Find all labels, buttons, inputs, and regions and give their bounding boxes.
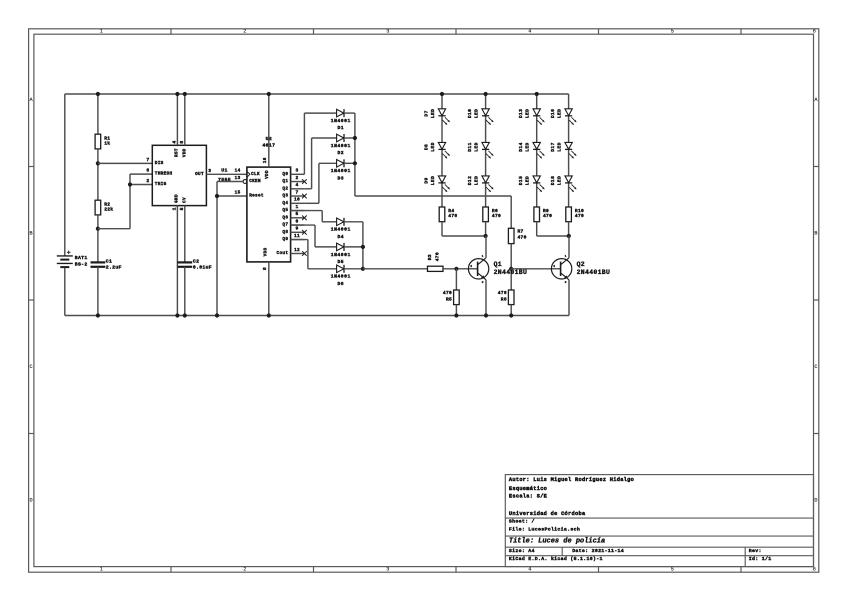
svg-text:3: 3 <box>565 280 567 284</box>
svg-text:Q6: Q6 <box>282 215 288 220</box>
svg-text:Title: Luces de policía: Title: Luces de policía <box>509 537 605 545</box>
svg-text:D5: D5 <box>338 259 345 265</box>
svg-text:2: 2 <box>295 175 298 181</box>
svg-text:D2: D2 <box>338 150 345 156</box>
svg-text:2: 2 <box>146 178 149 184</box>
svg-text:CLK: CLK <box>251 172 260 177</box>
svg-text:GND: GND <box>174 194 179 203</box>
svg-text:3: 3 <box>386 567 389 573</box>
svg-text:TRIG: TRIG <box>155 182 167 187</box>
svg-text:8: 8 <box>179 140 185 143</box>
svg-text:C2: C2 <box>193 259 199 265</box>
svg-text:B: B <box>29 230 32 236</box>
svg-text:VDD: VDD <box>265 170 270 179</box>
svg-text:470: 470 <box>518 235 527 241</box>
svg-text:LED: LED <box>430 176 436 185</box>
svg-text:6: 6 <box>146 168 149 174</box>
svg-text:5: 5 <box>179 207 185 210</box>
svg-text:470: 470 <box>543 213 552 219</box>
svg-text:1: 1 <box>100 567 103 573</box>
svg-text:1: 1 <box>295 204 298 210</box>
svg-text:LED: LED <box>525 142 531 151</box>
svg-text:LED: LED <box>430 142 436 151</box>
svg-text:3: 3 <box>386 29 389 35</box>
svg-text:4: 4 <box>172 140 178 143</box>
svg-text:R3: R3 <box>427 254 433 260</box>
svg-text:LED: LED <box>430 109 436 118</box>
svg-text:D12: D12 <box>467 176 473 185</box>
svg-text:2N4401BU: 2N4401BU <box>494 269 528 276</box>
svg-text:RST: RST <box>174 148 179 157</box>
svg-text:LED: LED <box>474 142 480 151</box>
svg-text:15: 15 <box>235 190 241 195</box>
svg-text:CKEN: CKEN <box>249 179 261 184</box>
svg-text:8: 8 <box>262 267 268 270</box>
svg-text:D13: D13 <box>518 109 524 118</box>
svg-text:A: A <box>814 97 818 103</box>
svg-text:13: 13 <box>235 176 241 181</box>
svg-text:LED: LED <box>474 109 480 118</box>
svg-text:A: A <box>29 97 33 103</box>
svg-text:C: C <box>814 364 817 370</box>
svg-text:Id: 1/1: Id: 1/1 <box>749 556 772 562</box>
svg-text:R1: R1 <box>104 135 110 141</box>
svg-text:2.2uF: 2.2uF <box>106 264 122 270</box>
svg-text:U1: U1 <box>221 168 228 174</box>
svg-text:Q1: Q1 <box>494 261 502 268</box>
svg-text:D17: D17 <box>550 142 556 151</box>
svg-text:D7: D7 <box>423 110 429 116</box>
svg-text:Cout: Cout <box>277 251 289 256</box>
svg-text:Q8: Q8 <box>282 230 288 235</box>
svg-text:BS-2: BS-2 <box>75 262 88 268</box>
svg-text:3: 3 <box>208 168 211 174</box>
svg-text:D14: D14 <box>518 142 524 151</box>
svg-text:Reset: Reset <box>249 194 264 199</box>
svg-text:LED: LED <box>525 176 531 185</box>
svg-text:7: 7 <box>146 157 149 163</box>
svg-text:1N4001: 1N4001 <box>331 168 351 174</box>
svg-text:R7: R7 <box>518 229 524 235</box>
svg-text:6: 6 <box>295 218 298 224</box>
svg-text:D8: D8 <box>423 144 429 150</box>
svg-text:LED: LED <box>525 109 531 118</box>
svg-text:1N4001: 1N4001 <box>331 143 351 149</box>
svg-text:Q7: Q7 <box>282 223 288 228</box>
svg-text:6: 6 <box>813 29 816 35</box>
svg-text:470: 470 <box>434 252 440 261</box>
svg-text:Size: A4: Size: A4 <box>509 548 535 554</box>
svg-text:2: 2 <box>243 567 246 573</box>
svg-text:22k: 22k <box>104 207 113 213</box>
svg-text:D9: D9 <box>423 177 429 183</box>
svg-text:7: 7 <box>295 189 298 195</box>
svg-text:470: 470 <box>443 290 452 296</box>
svg-text:R4: R4 <box>448 208 454 214</box>
svg-text:1k: 1k <box>104 141 110 147</box>
svg-text:File: LucesPolicia.sch: File: LucesPolicia.sch <box>509 527 580 533</box>
svg-text:Sheet: /: Sheet: / <box>509 518 535 524</box>
svg-text:5: 5 <box>671 567 674 573</box>
svg-text:12: 12 <box>294 248 300 253</box>
svg-text:2N4401BU: 2N4401BU <box>577 269 611 276</box>
svg-text:Date: 2021-11-14: Date: 2021-11-14 <box>572 548 624 554</box>
svg-text:14: 14 <box>235 169 241 174</box>
svg-text:D3: D3 <box>338 175 345 181</box>
svg-text:11: 11 <box>294 233 300 239</box>
svg-text:5: 5 <box>671 29 674 35</box>
svg-text:R8: R8 <box>501 297 507 303</box>
svg-text:Q9: Q9 <box>282 237 288 242</box>
svg-text:1: 1 <box>482 254 484 258</box>
svg-text:1: 1 <box>172 207 178 210</box>
svg-text:10: 10 <box>294 197 300 203</box>
svg-text:D16: D16 <box>550 109 556 118</box>
svg-text:VSS: VSS <box>264 248 269 257</box>
svg-text:470: 470 <box>575 213 584 219</box>
svg-text:R5: R5 <box>446 297 452 303</box>
svg-text:4: 4 <box>528 29 531 35</box>
svg-text:16: 16 <box>263 157 268 163</box>
svg-text:470: 470 <box>492 213 501 219</box>
svg-text:1N4001: 1N4001 <box>331 118 351 124</box>
svg-text:D11: D11 <box>467 142 473 151</box>
svg-text:1: 1 <box>565 254 567 258</box>
svg-text:Autor: Luis Miguel Rodríguez H: Autor: Luis Miguel Rodríguez Hidalgo <box>509 477 634 483</box>
svg-text:1N4001: 1N4001 <box>331 274 351 280</box>
svg-text:1N4001: 1N4001 <box>331 252 351 258</box>
svg-text:2: 2 <box>470 264 472 268</box>
svg-text:B: B <box>814 230 817 236</box>
svg-text:D4: D4 <box>338 234 345 240</box>
svg-text:D15: D15 <box>518 176 524 185</box>
svg-text:470: 470 <box>448 213 457 219</box>
svg-text:BAT1: BAT1 <box>75 255 88 261</box>
svg-text:D18: D18 <box>550 176 556 185</box>
svg-text:R10: R10 <box>575 208 584 214</box>
svg-text:LED: LED <box>474 176 480 185</box>
svg-text:3: 3 <box>482 280 484 284</box>
svg-text:Q0: Q0 <box>282 172 288 177</box>
svg-text:LED: LED <box>557 142 563 151</box>
svg-text:D10: D10 <box>467 109 473 118</box>
svg-text:DIS: DIS <box>155 161 164 166</box>
svg-text:C: C <box>29 364 32 370</box>
svg-text:Esquemático: Esquemático <box>509 486 547 492</box>
svg-text:LED: LED <box>557 176 563 185</box>
svg-text:Q3: Q3 <box>282 194 288 199</box>
svg-text:CV: CV <box>182 197 187 203</box>
svg-text:VDD: VDD <box>182 148 187 157</box>
svg-text:470: 470 <box>498 290 507 296</box>
svg-text:D: D <box>29 497 32 503</box>
svg-text:1N4001: 1N4001 <box>331 227 351 233</box>
svg-text:D: D <box>814 497 817 503</box>
svg-text:2: 2 <box>243 29 246 35</box>
svg-text:R9: R9 <box>543 208 549 214</box>
svg-text:1: 1 <box>100 29 103 35</box>
svg-text:4: 4 <box>295 182 298 188</box>
svg-text:6: 6 <box>813 567 816 573</box>
svg-text:THRESH: THRESH <box>155 172 173 177</box>
svg-text:R2: R2 <box>104 201 110 207</box>
svg-text:2: 2 <box>553 264 555 268</box>
svg-text:4: 4 <box>528 567 531 573</box>
svg-text:Q2: Q2 <box>282 186 288 191</box>
svg-text:Q2: Q2 <box>577 261 585 268</box>
svg-text:Q1: Q1 <box>282 179 288 184</box>
svg-text:KiCad E.D.A. kicad (5.1.10)-1: KiCad E.D.A. kicad (5.1.10)-1 <box>509 556 603 562</box>
svg-text:Universidad de Córdoba: Universidad de Córdoba <box>509 511 586 517</box>
svg-text:D1: D1 <box>338 125 345 131</box>
svg-text:0.01uF: 0.01uF <box>193 264 212 270</box>
svg-text:LED: LED <box>557 109 563 118</box>
svg-text:5: 5 <box>295 211 298 217</box>
svg-text:Rev:: Rev: <box>749 548 762 554</box>
svg-text:Q5: Q5 <box>282 208 288 213</box>
svg-text:OUT: OUT <box>195 172 204 177</box>
svg-text:9: 9 <box>295 226 298 232</box>
svg-text:C1: C1 <box>106 259 112 265</box>
svg-text:R6: R6 <box>492 208 498 214</box>
svg-text:3: 3 <box>295 168 298 174</box>
svg-text:Q4: Q4 <box>282 201 288 206</box>
svg-text:Escala: S/E: Escala: S/E <box>509 494 547 500</box>
svg-text:D6: D6 <box>338 281 345 287</box>
